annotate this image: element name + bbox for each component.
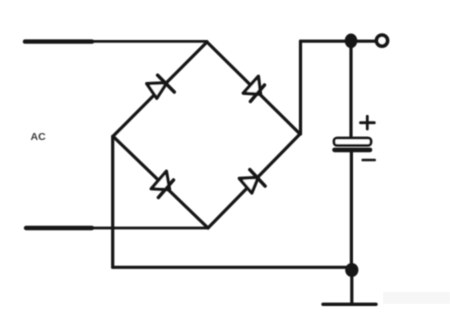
- wire left node drop: [111, 136, 114, 267]
- wire capacitor to bottom junction dot: [350, 151, 353, 270]
- wire AC bottom lead (thick left segment): [26, 226, 92, 230]
- wire junction dot down to capacitor: [349, 43, 352, 139]
- diode D4 (bottom node to right node): [239, 170, 265, 193]
- capacitor plus label: [361, 116, 375, 129]
- capacitor C1 bottom plate: [335, 148, 371, 153]
- ground: [323, 273, 376, 304]
- wire riser to junction dot: [301, 40, 352, 43]
- wire AC bottom to bridge bottom node: [90, 227, 208, 230]
- junction dot bottom (ground node): [345, 263, 358, 277]
- wire AC top lead (thick left segment): [25, 39, 92, 43]
- terminal (DC+ open circle): [377, 35, 388, 46]
- faint scan haze (decorative): [383, 292, 450, 304]
- capacitor minus label: [363, 159, 375, 162]
- diode D2 (top node to right node): [243, 76, 264, 101]
- wire right node riser: [299, 41, 302, 134]
- wire bridge edge: left node to top node: [113, 42, 207, 136]
- wire bridge edge: left node to bottom node: [113, 136, 208, 228]
- junction dot top (+ output node): [345, 34, 358, 49]
- wire bottom rail to junction dot: [113, 266, 352, 269]
- wire bridge edge: bottom node to right node: [208, 134, 300, 228]
- wire bridge edge: top node to right node: [207, 42, 300, 134]
- diode D3 (left node to bottom node): [151, 171, 173, 197]
- wire AC top to bridge top node: [90, 40, 207, 43]
- capacitor C1 top plate: [334, 138, 371, 145]
- diode D1 (left node to top node): [147, 75, 175, 98]
- svg-text:AC: AC: [31, 131, 47, 143]
- wire junction dot to output terminal: [351, 40, 376, 43]
